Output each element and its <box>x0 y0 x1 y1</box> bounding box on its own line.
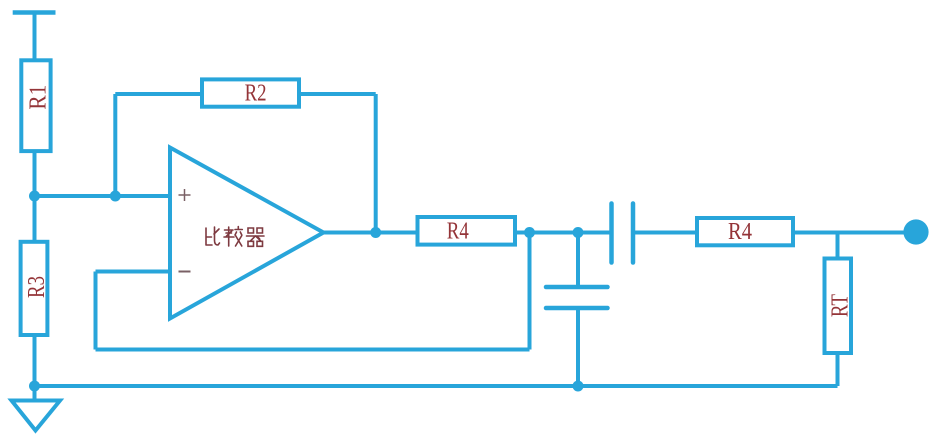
ground <box>12 401 61 431</box>
node capacitor top <box>573 227 584 238</box>
resistor RT <box>825 259 852 354</box>
capacitor C1 left plate <box>609 204 614 263</box>
op-amp plus sign <box>179 189 191 201</box>
node capacitor ground <box>573 381 584 392</box>
resistor R1 <box>21 60 50 151</box>
op-amp minus sign <box>179 271 191 273</box>
svg-text:R1: R1 <box>26 85 52 110</box>
output terminal <box>903 219 928 244</box>
wire drop to output node <box>374 94 378 233</box>
node after R4 <box>524 227 535 238</box>
resistor R4 first <box>418 217 516 245</box>
wire R4 to output terminal <box>793 231 904 235</box>
wire R3 to ground node <box>33 335 37 386</box>
resistor R2 <box>202 79 299 106</box>
wire tee down to RT <box>836 233 840 259</box>
glyph jiao <box>224 227 242 247</box>
svg-text:R2: R2 <box>245 80 267 106</box>
wire ground rail <box>35 384 838 388</box>
wire minus input <box>96 270 171 274</box>
wire feedback rail up to R4 node <box>528 233 532 350</box>
wire power to R1 <box>33 13 37 61</box>
capacitor C2 top plate <box>546 285 608 290</box>
op-amp U1 <box>170 148 324 319</box>
wire cap node down to C2 <box>576 233 580 288</box>
svg-text:R4: R4 <box>728 219 752 245</box>
wire stub to ground symbol <box>33 386 37 400</box>
wire C1 to R4 second <box>633 231 697 235</box>
power symbol bar <box>13 10 56 15</box>
wire R1 to node A <box>33 152 37 196</box>
glyph qi <box>247 228 265 246</box>
resistor R3 <box>21 242 48 335</box>
wire minus loop left down <box>94 272 98 350</box>
wire minus feedback rail <box>96 348 530 352</box>
glyph bi <box>206 227 220 245</box>
svg-text:RT: RT <box>828 294 854 317</box>
wire node A to R3 <box>33 196 37 242</box>
wire R2 to output drop <box>299 92 376 96</box>
node A <box>29 191 40 202</box>
svg-text:R3: R3 <box>24 276 50 298</box>
capacitor C2 bottom plate <box>546 306 608 311</box>
svg-text:R4: R4 <box>447 219 469 245</box>
node output <box>370 227 381 238</box>
wire RT to ground rail <box>836 353 840 386</box>
capacitor C1 right plate <box>631 204 636 263</box>
wire R2 rail left <box>115 92 202 96</box>
wire C2 to ground rail <box>576 308 580 386</box>
wire op-amp output to R4 <box>324 231 418 235</box>
label comparator chinese text <box>206 227 264 247</box>
wire R4 to series capacitor <box>515 231 612 235</box>
wire node B up to R2 rail <box>113 94 117 196</box>
resistor R4 second <box>697 218 793 245</box>
node ground left <box>29 381 40 392</box>
node B <box>110 191 121 202</box>
wire node A to op-amp plus input <box>35 194 171 198</box>
